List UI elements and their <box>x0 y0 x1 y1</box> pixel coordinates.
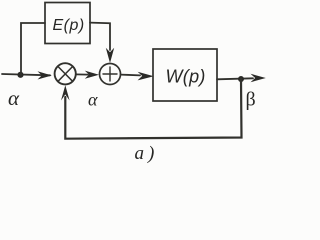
svg-text:β: β <box>246 89 256 111</box>
svg-text:α: α <box>88 90 98 110</box>
wire: adder to W(p) <box>121 74 140 77</box>
svg-text:a): a) <box>135 143 159 164</box>
wire: E(p) output right then down to adder <box>90 23 110 50</box>
arrowhead into W(p) left <box>138 72 154 81</box>
node: input junction dot <box>17 72 23 78</box>
arrowhead into multiplier left <box>38 71 52 79</box>
wire: junction up and right into E(p) <box>21 23 45 75</box>
block E1 E(p) <box>45 3 90 44</box>
arrowhead output right <box>251 74 266 82</box>
svg-text:W(p): W(p) <box>166 67 206 87</box>
wire: multiplier to adder <box>76 73 88 75</box>
svg-text:E(p): E(p) <box>53 17 85 34</box>
wire: alpha input line <box>2 74 50 75</box>
block W1 W(p) <box>153 49 217 101</box>
arrowhead into adder left <box>85 71 99 79</box>
wire: W(p) output line <box>217 78 253 79</box>
node: output junction dot <box>238 76 244 82</box>
svg-text:α: α <box>8 86 20 110</box>
multiplier junction: circle with X <box>55 63 76 84</box>
arrowhead into adder top <box>106 48 114 63</box>
adder junction: circle with plus <box>100 64 121 85</box>
wire: feedback down from output node <box>65 79 241 139</box>
arrowhead feedback into multiplier bottom <box>61 85 70 100</box>
